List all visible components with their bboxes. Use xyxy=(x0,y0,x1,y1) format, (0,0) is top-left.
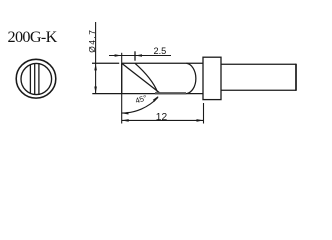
side view top edge with extension line xyxy=(92,62,119,64)
dim 12 left arrow xyxy=(122,119,129,122)
45 degree arc lower arrow xyxy=(122,112,129,115)
dim 12 line xyxy=(122,119,204,121)
svg-text:Ø4.7: Ø4.7 xyxy=(87,29,97,53)
blade bevel diagonal A xyxy=(122,63,161,93)
dim 12 right extension line xyxy=(203,103,205,124)
front view blade line left xyxy=(29,65,31,93)
front view outer circle xyxy=(16,59,56,98)
svg-text:12: 12 xyxy=(156,112,168,123)
dia 4.7 top arrow xyxy=(94,63,97,70)
blade edge thick segment xyxy=(155,92,186,94)
blade-to-cylinder round transition xyxy=(186,63,195,93)
dim 12 right arrow xyxy=(197,119,204,122)
dim 2.5 right arrow xyxy=(135,54,142,57)
dim 2.5 left arrow xyxy=(115,54,122,57)
front view blade line right xyxy=(38,64,40,94)
svg-text:45°: 45° xyxy=(134,93,148,105)
shaft top edge xyxy=(221,63,296,65)
45 degree arc xyxy=(121,97,158,113)
svg-text:2.5: 2.5 xyxy=(154,46,167,56)
long extension line at blade tip xyxy=(121,53,123,124)
svg-text:200G-K: 200G-K xyxy=(8,28,58,46)
45 degree arc upper arrow xyxy=(153,96,159,102)
dim 2.5 line xyxy=(109,55,171,57)
front view blade line middle xyxy=(34,64,36,95)
extension tick at bevel start xyxy=(134,51,136,60)
blade front vertical edge xyxy=(121,63,123,93)
side view bottom edge with extension line xyxy=(92,93,203,95)
blade bevel diagonal B xyxy=(135,63,158,92)
collar rectangle xyxy=(203,57,221,99)
dia 4.7 dimension line xyxy=(95,22,97,94)
side view top edge xyxy=(122,62,203,64)
dia 4.7 bottom arrow xyxy=(94,87,97,94)
shaft right end xyxy=(295,64,297,91)
front view inner circle xyxy=(21,63,52,94)
shaft bottom edge xyxy=(221,89,296,91)
